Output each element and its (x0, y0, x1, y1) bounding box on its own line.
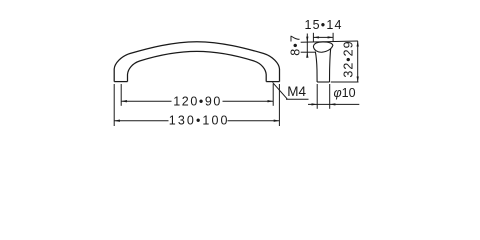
handle right foot bottom edge (266, 81, 279, 83)
dimension line 120·90 (121, 100, 273, 102)
arrow right of 120·90 (268, 100, 274, 102)
extension line φ10 left (316, 84, 318, 109)
arrow bottom of 32·29 pointing down (357, 77, 359, 83)
handle left foot bottom edge (114, 81, 127, 83)
svg-text:32•29: 32•29 (342, 40, 356, 77)
dimension line 32·29 (357, 41, 359, 82)
handle front view outer profile (114, 42, 279, 82)
M4 underline (286, 98, 309, 100)
dimension line 15·14 (313, 36, 333, 38)
dimension line 8·7 (306, 34, 308, 57)
arrow top of 32·29 pointing up (357, 41, 359, 47)
dimension line φ10 (308, 103, 359, 105)
arrow right of 130·100 (274, 120, 280, 122)
svg-text:8•7: 8•7 (288, 34, 302, 56)
extension line 15·14 left (312, 33, 314, 42)
M4 leader line (273, 82, 288, 99)
svg-text:φ10: φ10 (334, 86, 356, 100)
extension line right outer (278, 84, 280, 126)
arrow left of 15·14 (313, 36, 319, 38)
handle front view inner profile (128, 51, 267, 81)
arrow right of φ10 pointing left (330, 103, 336, 105)
extension line φ10 right (329, 84, 331, 109)
arrow bottom of 8·7 pointing up (306, 52, 308, 58)
side view top edge with extension lines (301, 41, 358, 42)
extension line 15·14 right (332, 33, 334, 42)
arrow left of φ10 pointing right (312, 103, 318, 105)
extension line 8·7 bottom (neck) (301, 51, 316, 53)
extension line left outer (113, 84, 115, 126)
svg-text:120•90: 120•90 (173, 94, 222, 108)
side view bottom edge (317, 81, 329, 83)
extension line left inner (120, 84, 122, 106)
svg-text:15•14: 15•14 (305, 18, 343, 32)
side view bar cross-section oval (313, 42, 333, 52)
arrow right of 15·14 (328, 36, 334, 38)
side view right leg edge (330, 49, 331, 82)
arrow top of 8·7 pointing down (306, 37, 308, 43)
arrow left of 120·90 (121, 100, 127, 102)
svg-text:130•100: 130•100 (169, 114, 230, 128)
dimension line 130·100 (114, 120, 279, 122)
extension line 32·29 bottom (331, 81, 359, 83)
svg-text:M4: M4 (287, 84, 306, 99)
arrow left of 130·100 (114, 120, 120, 122)
extension line right inner (272, 84, 274, 106)
side view left leg edge (315, 52, 317, 83)
